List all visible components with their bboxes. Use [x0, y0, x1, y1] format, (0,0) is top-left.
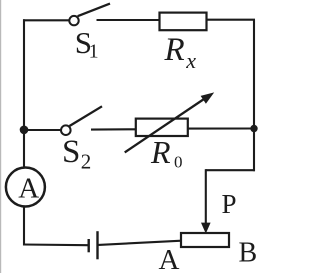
node junction left — [20, 126, 29, 135]
scan edge artifact left — [0, 0, 2, 273]
wire right vertical lower — [253, 129, 255, 172]
svg-text:x: x — [185, 48, 196, 73]
label S2 — [62, 134, 91, 174]
svg-text:1: 1 — [89, 41, 99, 63]
svg-text:R: R — [150, 134, 171, 170]
wire left vertical upper — [23, 19, 25, 167]
label R0 — [150, 134, 183, 171]
svg-text:P: P — [222, 189, 237, 219]
wire bottom-left segment — [23, 243, 88, 246]
svg-text:B: B — [239, 238, 258, 269]
wire left vertical lower — [23, 207, 25, 246]
svg-text:A: A — [18, 172, 39, 204]
switch S1 — [69, 4, 110, 26]
wire middle-left segment — [24, 129, 61, 131]
label Rx — [164, 32, 197, 73]
wire right vertical upper — [253, 20, 255, 130]
wire middle-center segment — [91, 128, 136, 130]
wire slider vertical with arrow P — [201, 169, 211, 233]
potentiometer AB box — [181, 233, 229, 247]
rheostat R0 arrow — [125, 92, 215, 152]
label S1 — [75, 25, 99, 63]
svg-text:2: 2 — [81, 150, 92, 174]
svg-text:R: R — [164, 32, 185, 68]
wire top-middle segment — [97, 19, 160, 21]
node junction right — [250, 125, 257, 132]
ammeter A — [6, 168, 45, 207]
wire top-left segment — [23, 19, 69, 21]
rheostat R0 box — [136, 119, 188, 136]
wire bottom-right segment — [99, 241, 182, 245]
resistor Rx box — [160, 13, 207, 31]
wire middle-right segment — [188, 127, 254, 129]
switch S2 — [61, 106, 102, 135]
svg-text:0: 0 — [174, 152, 183, 171]
svg-text:S: S — [62, 134, 80, 170]
wire top-right segment — [207, 19, 256, 21]
wire horizontal to slider — [206, 169, 256, 171]
svg-text:A: A — [159, 244, 180, 273]
battery cell — [89, 231, 98, 259]
